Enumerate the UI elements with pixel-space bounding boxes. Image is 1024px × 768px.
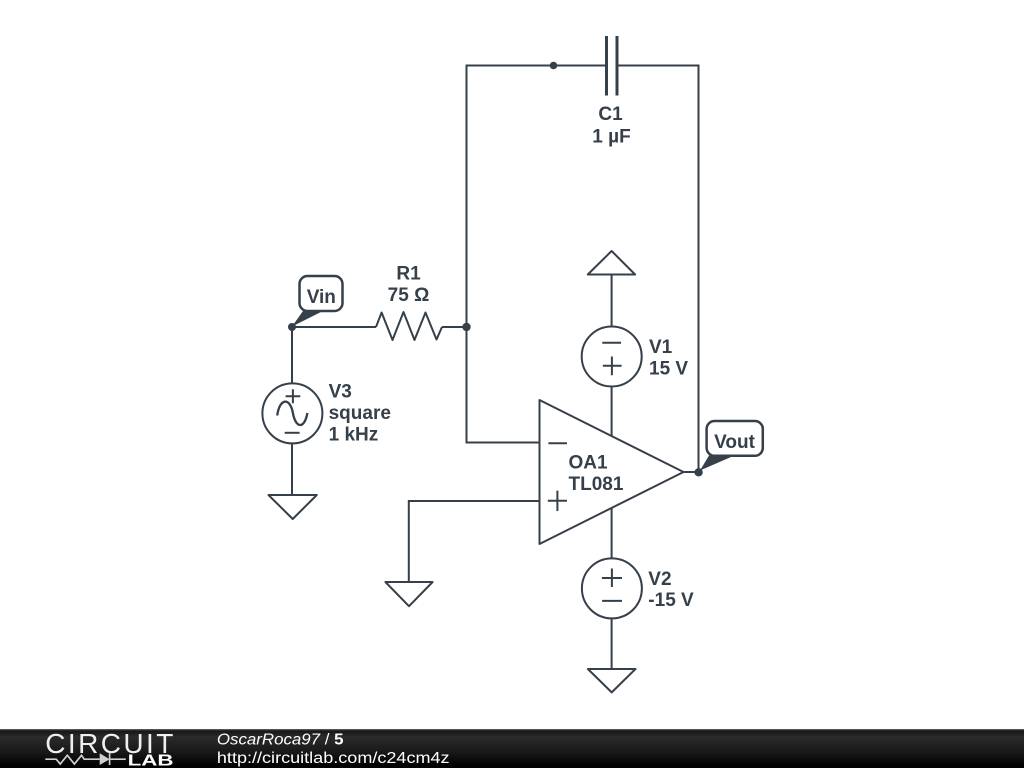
wire V3 to ground (291, 444, 293, 496)
V1 minus terminal (602, 342, 621, 344)
V2 minus terminal (602, 600, 622, 602)
node flag Vin box (300, 276, 343, 311)
ground under V3 (269, 495, 317, 519)
resistor R1 (376, 312, 442, 340)
wire top-right segment from C1 (619, 65, 699, 67)
svg-text:15 V: 15 V (649, 358, 688, 379)
node Vout dot (694, 468, 702, 476)
svg-text:square: square (329, 403, 391, 424)
svg-text:V1: V1 (649, 337, 673, 358)
op-amp U1 triangle (540, 400, 684, 544)
wire R1 to junction (442, 326, 467, 328)
svg-text:V2: V2 (648, 569, 671, 590)
svg-text:R1: R1 (396, 264, 421, 285)
svg-text:Vout: Vout (714, 432, 755, 453)
svg-text:1 kHz: 1 kHz (329, 425, 379, 446)
wire V1 to op-amp (611, 386, 613, 436)
svg-text:C1: C1 (598, 104, 623, 125)
svg-text:LAB: LAB (128, 752, 174, 768)
op-amp inverting pin minus symbol (548, 442, 567, 444)
op-amp non-inverting pin plus symbol (548, 491, 567, 511)
wire non-inverting input (409, 500, 540, 502)
wire right vertical feedback (698, 65, 700, 473)
wire non-inverting to ground (408, 500, 410, 582)
ground under non-inverting input (385, 582, 432, 606)
svg-text:75 Ω: 75 Ω (388, 285, 430, 306)
wire op-amp output (684, 471, 699, 473)
svg-text:1 µF: 1 µF (592, 127, 630, 148)
svg-text:TL081: TL081 (569, 474, 624, 495)
V+ power arrow (588, 251, 635, 275)
V3 minus terminal (285, 432, 300, 434)
footer bar (0, 729, 1024, 768)
svg-text:Vin: Vin (307, 287, 336, 308)
node flag Vout box (707, 421, 763, 456)
junction dot on top wire (550, 62, 558, 70)
svg-text:OA1: OA1 (569, 452, 609, 473)
V1 plus terminal (603, 357, 622, 376)
wire left vertical feedback (466, 65, 468, 443)
V3 sine glyph (277, 402, 307, 425)
svg-text:http://circuitlab.com/c24cm4z: http://circuitlab.com/c24cm4z (217, 750, 450, 767)
source V3 circle (262, 383, 322, 443)
svg-text:-15 V: -15 V (648, 590, 694, 611)
wire op-amp to V2 (611, 508, 613, 559)
wire Vin node to R1 (292, 326, 376, 328)
node Vin dot (288, 323, 296, 331)
power supply V1 circle (582, 327, 642, 387)
wire V2 to ground (611, 618, 613, 669)
Vin flag pointer (292, 311, 321, 327)
junction dot R1 output node (462, 323, 470, 331)
wire V+ arrow to V1 (611, 275, 613, 327)
V2 plus terminal (602, 569, 622, 588)
logo resistor-diode glyph (45, 753, 126, 765)
V3 plus terminal (286, 389, 301, 403)
capacitor C1 (607, 36, 618, 96)
svg-text:OscarRoca97 / 5: OscarRoca97 / 5 (217, 731, 344, 748)
power supply V2 circle (582, 558, 642, 618)
wire to inverting input (466, 442, 540, 444)
wire top-left segment to C1 (467, 65, 606, 67)
ground under V2 (588, 669, 636, 692)
Vout flag pointer (700, 456, 731, 471)
wire Vin node down to V3 (291, 327, 293, 384)
svg-text:V3: V3 (329, 382, 352, 403)
